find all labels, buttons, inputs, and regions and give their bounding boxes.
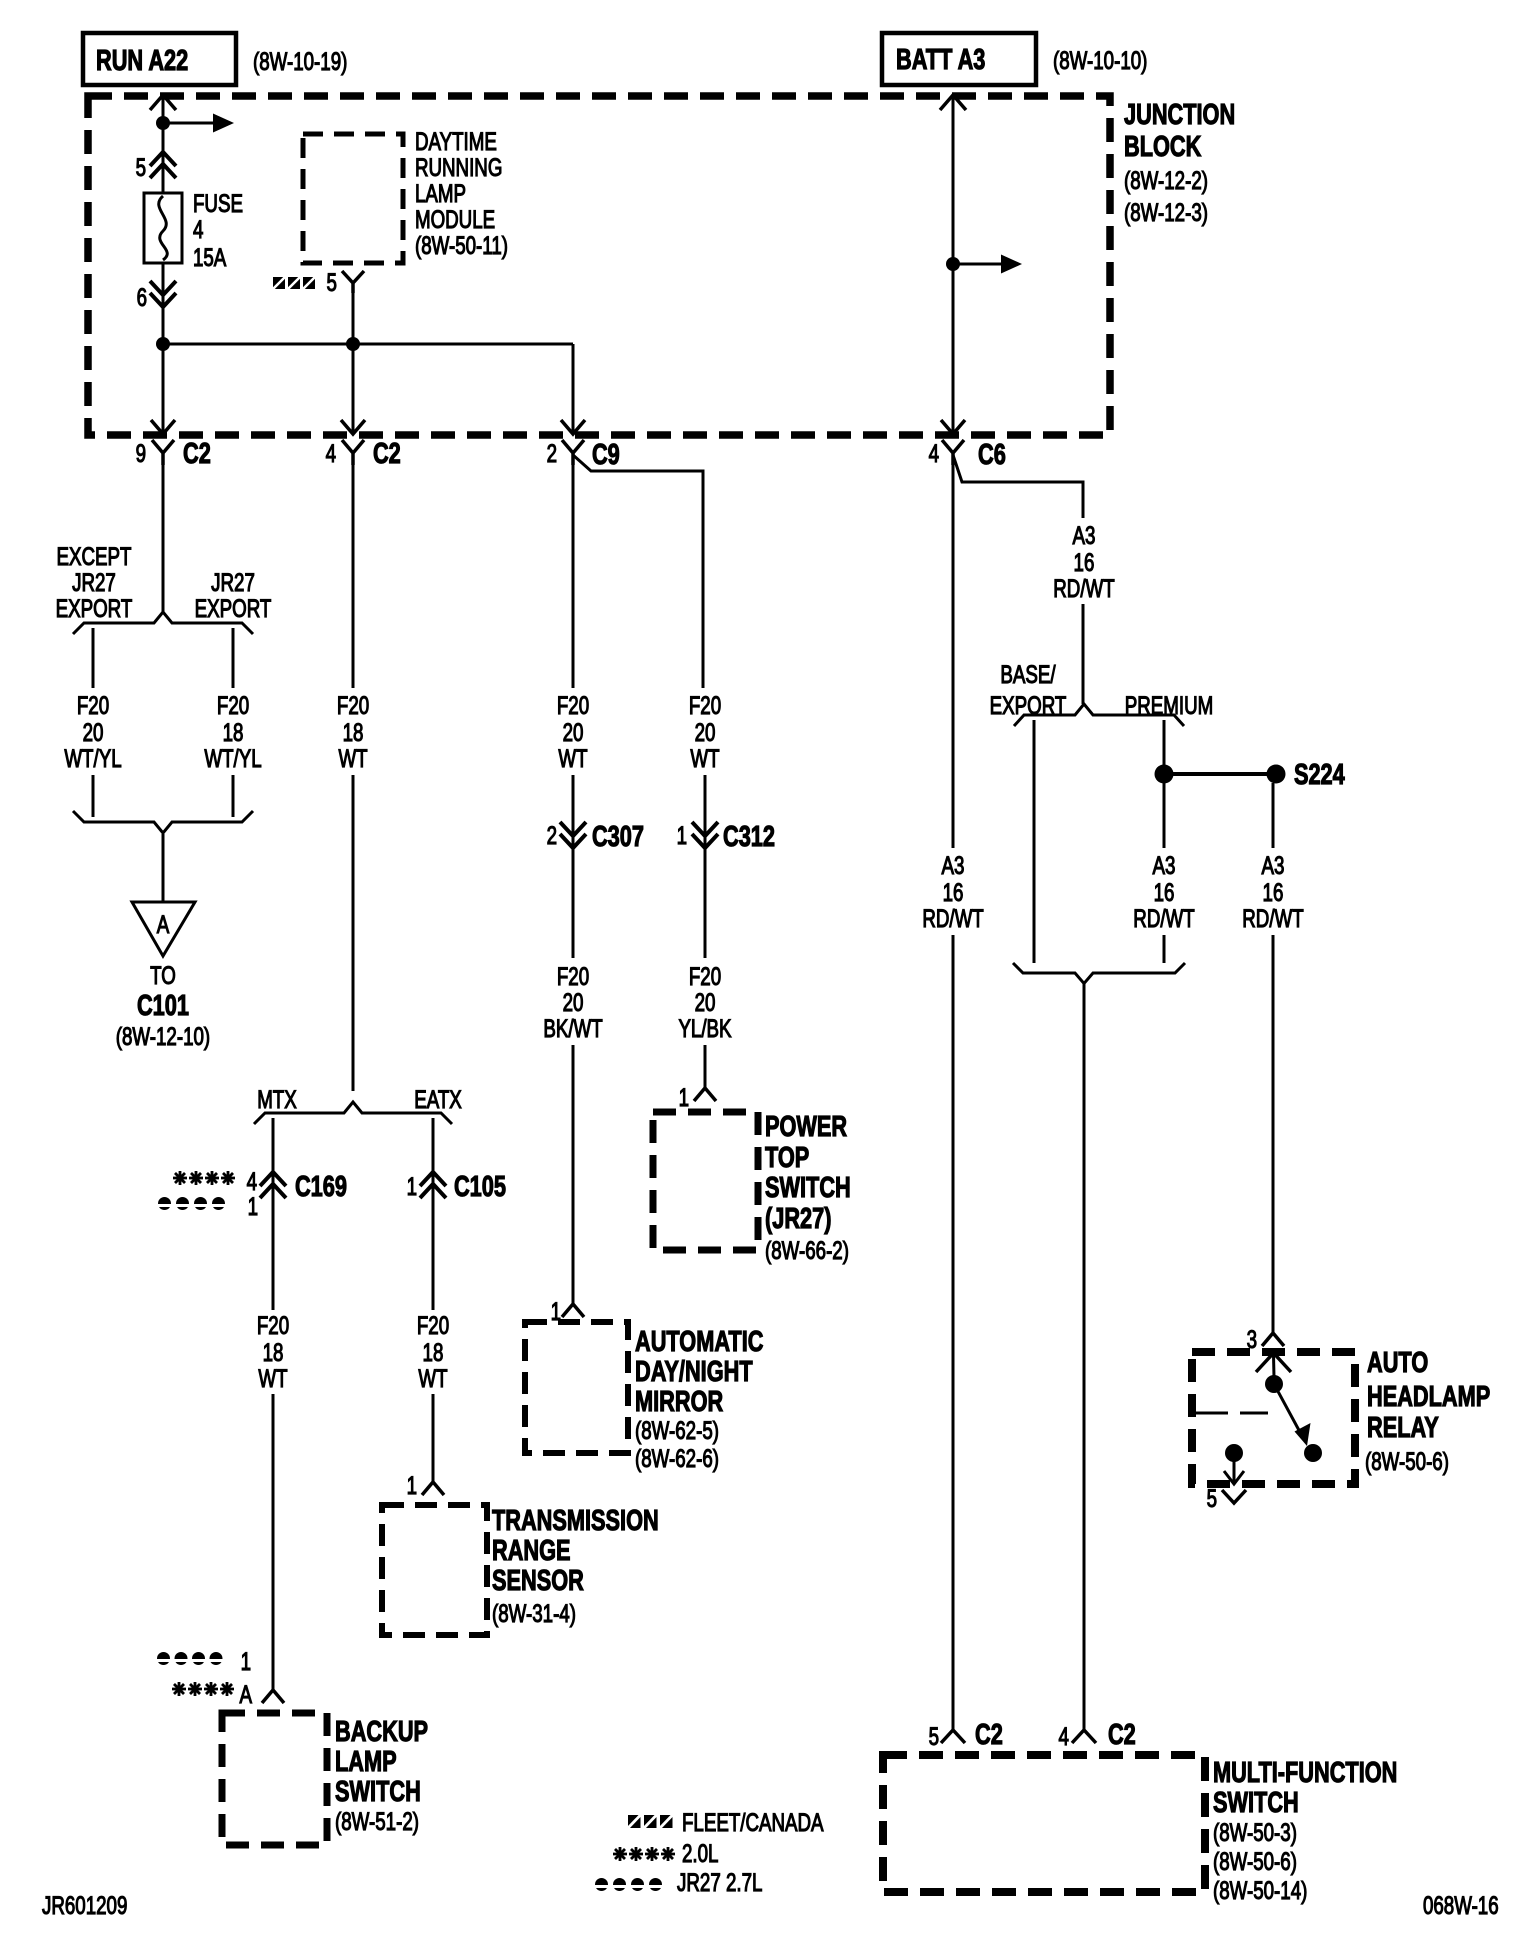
wire: PREMIUM branch x=1164 to merge brace: [1163, 935, 1166, 963]
svg-text:WT: WT: [558, 744, 587, 772]
svg-text:TOP: TOP: [765, 1142, 809, 1174]
svg-text:EXPORT: EXPORT: [56, 594, 133, 622]
wire: MTX branch x=273: [272, 1118, 275, 1310]
wire: column x=353 upper segment: [352, 465, 355, 688]
svg-text:C9: C9: [592, 439, 620, 471]
svg-text:(8W-51-2): (8W-51-2): [335, 1807, 419, 1835]
svg-text:MULTI-FUNCTION: MULTI-FUNCTION: [1213, 1757, 1397, 1789]
svg-text:F20: F20: [557, 691, 589, 719]
2.0L asterisks at C169 pin 4: [173, 1171, 235, 1185]
svg-text:18: 18: [423, 1338, 444, 1366]
svg-text:RD/WT: RD/WT: [1133, 904, 1194, 932]
wire: BATT column x=953 lower to multi-function switch: [952, 935, 955, 1731]
connector 1 of power top switch (Y symbol): [694, 1088, 716, 1101]
fleet/canada squares at DRL pin 5: [273, 277, 315, 289]
svg-text:(8W-62-6): (8W-62-6): [635, 1444, 719, 1472]
svg-text:LAMP: LAMP: [335, 1746, 397, 1778]
svg-text:SWITCH: SWITCH: [765, 1172, 851, 1204]
node junction dot (163,123): [156, 116, 170, 130]
svg-text:4: 4: [326, 439, 336, 467]
svg-text:WT: WT: [338, 744, 367, 772]
svg-text:RUN A22: RUN A22: [96, 45, 188, 77]
power top switch box: [653, 1112, 758, 1250]
relay N.O. contact dot: [1304, 1444, 1322, 1462]
automatic day/night mirror box: [525, 1322, 628, 1453]
svg-text:S224: S224: [1294, 759, 1345, 791]
svg-text:(8W-66-2): (8W-66-2): [765, 1236, 849, 1264]
connector box RUN A22: [83, 33, 236, 85]
svg-text:16: 16: [1154, 878, 1175, 906]
connector 4 C2 (Y symbol): [342, 440, 364, 465]
svg-text:5: 5: [136, 153, 146, 181]
svg-text:BACKUP: BACKUP: [335, 1716, 428, 1748]
svg-text:C169: C169: [295, 1171, 347, 1203]
svg-text:(JR27): (JR27): [765, 1203, 831, 1235]
brace merge (closing): [73, 811, 253, 833]
svg-text:BLOCK: BLOCK: [1124, 131, 1202, 163]
svg-text:JR27 2.7L: JR27 2.7L: [677, 1868, 762, 1896]
wire: PREMIUM branch x=1164 lower: [1163, 783, 1166, 848]
connector 4 C6 (Y symbol): [942, 440, 964, 465]
wire: bus corner down at x=573: [572, 344, 575, 434]
svg-text:AUTOMATIC: AUTOMATIC: [635, 1326, 763, 1358]
relay internal dashed divider: [1194, 1412, 1268, 1415]
wire: C6 branch diagonal and down at x=1084: [953, 455, 1083, 518]
multi-function switch box: [883, 1755, 1205, 1892]
svg-text:16: 16: [1074, 548, 1095, 576]
svg-text:C2: C2: [373, 438, 401, 470]
svg-text:C6: C6: [978, 439, 1006, 471]
in-line connector C169 chevrons (pointing up): [260, 1172, 286, 1198]
svg-text:C312: C312: [723, 821, 775, 853]
svg-text:JR27: JR27: [211, 568, 255, 596]
svg-text:WT: WT: [690, 744, 719, 772]
arrow down exit x=953: [941, 420, 965, 434]
svg-text:(8W-31-4): (8W-31-4): [492, 1599, 576, 1627]
svg-text:MIRROR: MIRROR: [635, 1386, 723, 1418]
svg-text:WT: WT: [418, 1364, 447, 1392]
wire: C9 branch diagonal and horizontal to x=705: [573, 455, 703, 688]
svg-text:RELAY: RELAY: [1367, 1412, 1439, 1444]
svg-text:HEADLAMP: HEADLAMP: [1367, 1381, 1490, 1413]
svg-text:EXPORT: EXPORT: [990, 691, 1067, 719]
junction block: [88, 96, 1110, 435]
svg-text:1: 1: [248, 1192, 258, 1220]
arrow down exit x=573: [561, 420, 585, 434]
svg-text:4: 4: [1059, 1722, 1069, 1750]
svg-text:BK/WT: BK/WT: [543, 1014, 602, 1042]
svg-text:(8W-12-3): (8W-12-3): [1124, 198, 1208, 226]
svg-text:20: 20: [83, 718, 104, 746]
wire: column x=573 upper segment: [572, 465, 575, 688]
svg-text:A3: A3: [1262, 851, 1285, 879]
svg-text:20: 20: [563, 718, 584, 746]
node junction dot (163,344): [156, 337, 170, 351]
svg-text:F20: F20: [337, 691, 369, 719]
connector A of backup lamp switch (Y symbol): [262, 1690, 284, 1703]
svg-text:WT/YL: WT/YL: [64, 744, 121, 772]
svg-text:JUNCTION: JUNCTION: [1124, 99, 1235, 131]
svg-text:EXCEPT: EXCEPT: [56, 542, 131, 570]
svg-text:(8W-50-6): (8W-50-6): [1365, 1447, 1449, 1475]
svg-text:C105: C105: [454, 1171, 506, 1203]
svg-text:1: 1: [551, 1297, 561, 1325]
transmission range sensor box: [382, 1505, 487, 1635]
legend 2.0L asterisks: [613, 1847, 675, 1861]
svg-text:EATX: EATX: [414, 1085, 462, 1113]
svg-text:DAYTIME: DAYTIME: [415, 127, 497, 155]
svg-text:SWITCH: SWITCH: [335, 1776, 421, 1808]
svg-text:RD/WT: RD/WT: [1242, 904, 1303, 932]
relay common contact stem: [1272, 1355, 1276, 1377]
svg-text:9: 9: [136, 439, 146, 467]
wire: column x=353 lower segment to MTX/EATX split: [352, 775, 355, 1091]
svg-text:RD/WT: RD/WT: [1053, 574, 1114, 602]
arrow down exit x=163: [151, 420, 175, 434]
svg-text:18: 18: [223, 718, 244, 746]
wire: PREMIUM branch x=1164 upper: [1163, 720, 1166, 774]
wire: x=1084 segment to BASE/PREMIUM split: [1082, 604, 1085, 704]
svg-text:A3: A3: [1153, 851, 1176, 879]
svg-text:2: 2: [547, 439, 557, 467]
wire: column x=573 mid segment: [572, 775, 575, 958]
svg-text:(8W-10-10): (8W-10-10): [1053, 46, 1147, 74]
svg-text:5: 5: [1207, 1484, 1217, 1512]
relay pin 3 arrow inside (pointing up): [1256, 1353, 1291, 1372]
in-line connector 6 chevrons (pointing down): [150, 281, 176, 307]
wire: arrow tap right at y=264: [953, 263, 1004, 266]
svg-text:(8W-62-5): (8W-62-5): [635, 1416, 719, 1444]
arrow up into RUN A22: [150, 95, 176, 110]
wire: left column x=163 down to split: [162, 465, 165, 612]
svg-text:C101: C101: [137, 990, 189, 1022]
svg-text:16: 16: [1263, 878, 1284, 906]
relay pin 5 contact dot: [1225, 1444, 1243, 1462]
backup lamp switch box: [222, 1713, 327, 1845]
wire: except-jr27 branch upper x=93: [92, 628, 95, 688]
svg-text:1: 1: [677, 821, 687, 849]
svg-text:4: 4: [193, 215, 203, 243]
svg-text:F20: F20: [689, 691, 721, 719]
auto headlamp relay box: [1192, 1352, 1355, 1484]
wire: merged down to triangle: [162, 834, 165, 902]
svg-text:4: 4: [929, 439, 939, 467]
svg-text:POWER: POWER: [765, 1111, 847, 1143]
arrow down exit x=353: [341, 420, 365, 434]
wire: BATT A3 vertical x=953: [952, 96, 955, 434]
svg-text:F20: F20: [417, 1311, 449, 1339]
svg-text:18: 18: [263, 1338, 284, 1366]
arrowhead right (234,123): [213, 114, 234, 133]
svg-text:TRANSMISSION: TRANSMISSION: [492, 1505, 659, 1537]
svg-text:LAMP: LAMP: [415, 179, 466, 207]
svg-text:F20: F20: [77, 691, 109, 719]
svg-text:RANGE: RANGE: [492, 1535, 571, 1567]
2.0L asterisks at backup pin A: [172, 1682, 234, 1696]
connector box BATT A3: [882, 33, 1036, 85]
svg-text:20: 20: [563, 988, 584, 1016]
svg-text:PREMIUM: PREMIUM: [1125, 691, 1213, 719]
wire: EATX branch x=433: [432, 1118, 435, 1310]
connector 9 C2 (Y symbol): [152, 440, 174, 465]
legend fleet/canada squares: [628, 1815, 673, 1828]
wire: horizontal bus y=344 from x=163 to x=573: [163, 343, 573, 346]
svg-text:5: 5: [929, 1722, 939, 1750]
in-line connector 5 chevrons (pointing up): [150, 152, 176, 178]
svg-text:(8W-50-6): (8W-50-6): [1213, 1847, 1297, 1875]
wire: merged x=1084 down to multi-function switch: [1083, 983, 1086, 1731]
svg-text:JR601209: JR601209: [42, 1891, 127, 1919]
fuse F4 body: [144, 193, 182, 263]
connector 4 C2 of multi-function switch (Y symbol): [1072, 1730, 1096, 1743]
relay armature diagonal: [1274, 1384, 1301, 1434]
svg-text:C307: C307: [592, 821, 644, 853]
svg-text:WT/YL: WT/YL: [204, 744, 261, 772]
node S224 right dot: [1267, 765, 1286, 784]
connector 2 C9 (Y symbol with branch): [562, 440, 584, 465]
svg-text:DAY/NIGHT: DAY/NIGHT: [635, 1356, 753, 1388]
brace split EXCEPT/JR27 (opening): [73, 612, 253, 634]
wire: column x=705 mid segment: [704, 775, 707, 958]
JR27 2.7L circles at C169 pin 1: [158, 1197, 226, 1210]
brace split BASE-EXPORT/PREMIUM (opening): [1014, 704, 1184, 726]
svg-text:20: 20: [695, 718, 716, 746]
svg-text:15A: 15A: [193, 243, 227, 271]
svg-text:JR27: JR27: [72, 568, 116, 596]
wire: column x=705 lower segment: [704, 1045, 707, 1089]
svg-text:BASE/: BASE/: [1000, 660, 1056, 688]
node junction dot (353,344): [346, 337, 360, 351]
relay pin 5 stem and arrow down: [1224, 1453, 1244, 1484]
relay armature arrowhead: [1295, 1423, 1311, 1446]
wire: column x=573 lower segment: [572, 1045, 575, 1305]
svg-text:RD/WT: RD/WT: [922, 904, 983, 932]
svg-text:C2: C2: [183, 438, 211, 470]
daytime running lamp module box: [303, 134, 403, 263]
svg-text:SWITCH: SWITCH: [1213, 1787, 1299, 1819]
svg-text:F20: F20: [217, 691, 249, 719]
wire: DRL pin5 down to bus x=353: [352, 293, 355, 434]
svg-text:16: 16: [943, 878, 964, 906]
svg-text:(8W-50-14): (8W-50-14): [1213, 1876, 1307, 1904]
svg-text:2.0L: 2.0L: [682, 1839, 718, 1867]
svg-text:F20: F20: [257, 1311, 289, 1339]
svg-text:MTX: MTX: [257, 1085, 297, 1113]
svg-text:F20: F20: [689, 962, 721, 990]
svg-text:C2: C2: [1108, 1719, 1136, 1751]
wire: MTX branch lower x=273: [272, 1394, 275, 1691]
svg-text:1: 1: [679, 1083, 689, 1111]
legend JR27 2.7L circles: [595, 1878, 663, 1891]
svg-text:F20: F20: [557, 962, 589, 990]
svg-text:AUTO: AUTO: [1367, 1347, 1428, 1379]
svg-text:EXPORT: EXPORT: [195, 594, 272, 622]
node S224 left dot: [1155, 765, 1174, 784]
wire: arrow tap right at y=123: [163, 122, 216, 125]
svg-text:(8W-12-2): (8W-12-2): [1124, 166, 1208, 194]
svg-text:C2: C2: [975, 1719, 1003, 1751]
arrow up into BATT A3: [940, 95, 966, 110]
wire: S224 column x=1273 down to relay: [1272, 935, 1275, 1334]
connector pin 5 of DRL module (Y symbol): [342, 271, 364, 293]
svg-text:1: 1: [407, 1172, 417, 1200]
svg-text:A: A: [239, 1680, 252, 1708]
connector 5 C2 of multi-function switch (Y symbol): [941, 1730, 965, 1743]
JR27 circles at backup pin 1: [157, 1652, 224, 1665]
svg-text:FLEET/CANADA: FLEET/CANADA: [682, 1808, 824, 1836]
off-page triangle A: [132, 902, 195, 956]
svg-text:(8W-10-19): (8W-10-19): [253, 47, 347, 75]
svg-text:MODULE: MODULE: [415, 205, 495, 233]
wire: S224 horizontal link: [1164, 772, 1276, 776]
connector 3 of auto headlamp relay (Y symbol): [1262, 1333, 1284, 1346]
node junction dot (953,264): [946, 257, 960, 271]
wire: jr27 branch upper x=233: [232, 628, 235, 688]
svg-text:SENSOR: SENSOR: [492, 1565, 584, 1597]
svg-text:A: A: [157, 910, 170, 938]
svg-text:068W-16: 068W-16: [1423, 1891, 1499, 1919]
wire: jr27 branch lower x=233: [232, 775, 235, 817]
svg-text:18: 18: [343, 718, 364, 746]
svg-text:(8W-12-10): (8W-12-10): [116, 1022, 210, 1050]
svg-text:FUSE: FUSE: [193, 189, 243, 217]
in-line connector C312 chevrons (pointing down): [692, 822, 718, 848]
wire: RUN A22 feed vertical x=163: [162, 96, 165, 434]
relay common contact dot: [1265, 1375, 1283, 1393]
svg-text:RUNNING: RUNNING: [415, 153, 502, 181]
svg-text:3: 3: [1247, 1325, 1257, 1353]
brace split MTX/EATX (opening): [254, 1102, 452, 1124]
svg-text:YL/BK: YL/BK: [678, 1014, 731, 1042]
svg-text:1: 1: [241, 1647, 251, 1675]
svg-text:(8W-50-11): (8W-50-11): [415, 231, 508, 259]
connector 1 of automatic day/night mirror (Y symbol): [562, 1304, 584, 1317]
svg-text:A3: A3: [1073, 521, 1096, 549]
wire: BATT column x=953 below C6: [952, 465, 955, 848]
svg-text:5: 5: [327, 268, 337, 296]
svg-text:A3: A3: [942, 851, 965, 879]
svg-text:WT: WT: [258, 1364, 287, 1392]
arrowhead right (1022,264): [1001, 255, 1022, 274]
svg-text:20: 20: [695, 988, 716, 1016]
in-line connector C307 chevrons (pointing down): [560, 822, 586, 848]
brace merge BASE/PREMIUM (closing): [1013, 963, 1185, 984]
svg-text:BATT A3: BATT A3: [896, 44, 985, 76]
wire: S224 column x=1273 upper: [1272, 783, 1275, 848]
svg-text:1: 1: [407, 1471, 417, 1499]
fuse F4 element wavy line: [159, 196, 168, 260]
connector 1 of transmission range sensor (Y symbol): [422, 1482, 444, 1495]
connector 5 chevron below relay: [1222, 1490, 1246, 1503]
wire: BASE/EXPORT branch x=1034: [1033, 720, 1036, 963]
in-line connector C105 chevrons (pointing up): [420, 1172, 446, 1198]
svg-text:6: 6: [137, 283, 147, 311]
svg-text:2: 2: [547, 821, 557, 849]
wire: EATX branch lower x=433: [432, 1394, 435, 1483]
svg-text:(8W-50-3): (8W-50-3): [1213, 1818, 1297, 1846]
wire: except-jr27 branch lower x=93: [92, 775, 95, 817]
svg-text:TO: TO: [150, 961, 176, 989]
